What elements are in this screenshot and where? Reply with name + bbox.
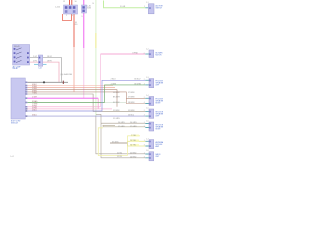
svg-text:XX XXX: XX XXX [113,102,120,104]
svg-text:6 BLU: 6 BLU [32,115,37,117]
svg-text:4: 4 [144,115,145,117]
svg-text:2: 2 [66,15,67,17]
svg-text:12: 12 [63,1,65,3]
svg-text:9: 9 [26,107,27,109]
svg-text:C-6: C-6 [146,121,149,123]
svg-text:C-4: C-4 [146,95,149,97]
svg-text:54 GRN: 54 GRN [130,122,137,124]
svg-text:FR DOOR: FR DOOR [156,99,164,101]
svg-text:52 GRN: 52 GRN [118,126,125,128]
svg-text:54 GRN: 54 GRN [118,122,125,124]
svg-text:55 BRN: 55 BRN [113,92,120,94]
svg-text:LEFT: LEFT [156,85,160,87]
svg-text:11: 11 [26,111,28,113]
svg-text:C-7: C-7 [146,139,149,141]
svg-text:XX XXX: XX XXX [112,142,119,144]
svg-text:C-2: C-2 [146,49,149,51]
svg-text:18 GY: 18 GY [47,56,53,58]
svg-text:9: 9 [82,16,83,18]
svg-text:10: 10 [26,109,28,111]
svg-text:BODY CONT: BODY CONT [11,121,20,123]
svg-text:2 GRY: 2 GRY [32,97,38,99]
svg-text:2: 2 [26,85,27,87]
svg-text:57 BRN: 57 BRN [128,92,135,94]
svg-text:MODULE: MODULE [156,144,163,146]
svg-text:55 BRN: 55 BRN [128,110,135,112]
svg-text:6: 6 [144,53,145,55]
svg-text:C-3: C-3 [146,77,149,79]
svg-text:(G)-10A FUSE: (G)-10A FUSE [60,73,72,76]
svg-text:10: 10 [75,1,77,3]
svg-text:56 RED: 56 RED [130,156,137,158]
svg-text:7: 7 [26,98,27,100]
svg-text:RR DOOR: RR DOOR [156,125,164,127]
svg-text:3: 3 [144,156,145,158]
svg-text:C-210: C-210 [55,7,60,9]
svg-text:5: 5 [26,92,27,94]
svg-text:1: 1 [26,82,27,84]
svg-text:1 of 2: 1 of 2 [10,156,14,158]
svg-text:57 BRN: 57 BRN [128,97,135,99]
svg-text:MODULE: MODULE [11,123,18,125]
svg-text:FR DOOR: FR DOOR [156,81,164,83]
svg-text:58 GRN: 58 GRN [134,83,141,85]
svg-text:2: 2 [144,97,145,99]
svg-text:4: 4 [144,83,145,85]
svg-text:56 BLU: 56 BLU [128,115,135,117]
svg-text:3: 3 [144,126,145,128]
svg-text:2 BLU: 2 BLU [32,110,37,112]
svg-text:3: 3 [26,87,27,89]
svg-text:8 PNK: 8 PNK [133,52,139,54]
svg-text:3: 3 [144,145,145,147]
svg-text:53 YEL: 53 YEL [130,140,136,142]
svg-text:7 RED: 7 RED [32,93,38,95]
svg-text:BK WHT: BK WHT [113,97,121,99]
svg-text:LEFT: LEFT [156,116,160,118]
svg-text:C-8: C-8 [146,150,149,152]
svg-text:51 BRN: 51 BRN [113,110,120,112]
svg-text:14: 14 [92,3,94,5]
svg-text:56 BLU: 56 BLU [134,79,141,81]
svg-text:C-5: C-5 [146,108,149,110]
svg-text:MOTOR: MOTOR [156,55,163,57]
svg-text:54 YEL: 54 YEL [130,145,136,147]
svg-text:RIGHT: RIGHT [156,103,161,105]
svg-text:2: 2 [144,79,145,81]
svg-text:51 GRN: 51 GRN [113,118,120,120]
svg-text:RELAY: RELAY [14,45,21,48]
svg-text:1: 1 [144,153,145,155]
svg-text:4 GRN: 4 GRN [111,83,117,85]
svg-text:4: 4 [26,89,27,91]
svg-text:8: 8 [26,102,27,104]
svg-text:2: 2 [144,110,145,112]
svg-text:55 RED: 55 RED [130,153,137,155]
svg-text:3: 3 [72,15,73,17]
svg-text:18 PK: 18 PK [47,61,53,63]
svg-text:51 RD: 51 RD [117,153,123,155]
svg-text:5 YEL: 5 YEL [131,135,136,137]
svg-text:SWITCH: SWITCH [156,8,163,10]
svg-text:1: 1 [144,122,145,124]
svg-text:2 BLU: 2 BLU [111,79,117,81]
svg-text:6: 6 [26,94,27,96]
svg-text:1: 1 [144,140,145,142]
svg-text:BLOWER: BLOWER [156,53,164,55]
svg-text:1: 1 [144,6,145,8]
svg-text:RIGHT: RIGHT [156,129,161,131]
svg-text:C-22: C-22 [38,68,42,70]
svg-text:JOIN: JOIN [87,8,92,10]
svg-text:52 GRN: 52 GRN [130,126,137,128]
svg-text:58 BRN: 58 BRN [128,102,135,104]
svg-text:UNIT: UNIT [156,156,160,158]
svg-text:5 LGN: 5 LGN [120,6,126,8]
svg-text:4: 4 [144,102,145,104]
svg-text:12: 12 [26,116,28,118]
svg-text:52 RD: 52 RD [117,156,123,158]
svg-text:RR DOOR: RR DOOR [156,112,164,114]
svg-text:C-1: C-1 [146,2,149,4]
